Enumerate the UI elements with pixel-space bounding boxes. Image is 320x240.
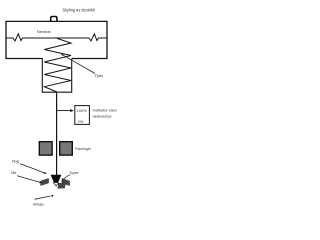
spring housing walls [42,59,71,93]
svg-text:2%: 2% [78,119,84,124]
svg-text:væskepumpe: væskepumpe [93,114,113,119]
spring leader arrow [63,55,96,74]
svg-text:100%: 100% [77,108,88,113]
coil spring [44,38,71,92]
seal square right [60,142,73,155]
inlet leader arrow [35,196,51,199]
svg-text:Skyling av dentrikk: Skyling av dentrikk [63,7,96,12]
plug leader arrow [20,164,45,173]
seat block right (hatched) [62,178,70,185]
vent cap [51,17,57,22]
sole leader arrow [17,176,40,183]
plug cone [51,175,62,182]
membrane line with left and right flex squiggles [6,34,107,41]
stem rod [56,92,58,175]
seal square left [39,142,52,155]
svg-text:Pakninger: Pakninger [75,146,92,151]
nozzle leader curve [62,175,71,182]
chamber housing outline [6,21,107,58]
svg-text:Membran: Membran [37,29,51,34]
seat block left (hatched) [41,178,49,185]
nozzle block lower (hatched) [58,183,66,189]
svg-text:Plugg: Plugg [12,159,19,164]
svg-text:Innløp: Innløp [33,201,45,206]
outlet V notch [53,183,58,186]
indicator arrow [57,110,71,112]
svg-text:Såle: Såle [11,170,17,175]
indicator box [75,106,90,125]
svg-text:Dyse: Dyse [70,170,80,175]
svg-text:Indikator viser: Indikator viser [93,108,118,113]
svg-text:Fjær: Fjær [95,73,104,78]
